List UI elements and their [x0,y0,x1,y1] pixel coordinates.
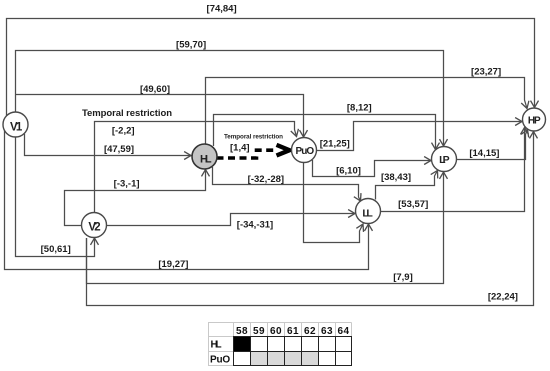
wire V2-HP [22,24] [87,132,534,306]
svg-text:62: 62 [304,326,316,337]
svg-text:63: 63 [321,326,333,337]
svg-text:[8,12]: [8,12] [347,102,372,113]
wire V2-PuO [-2,2] [95,122,297,214]
svg-text:61: 61 [287,326,299,337]
wire PuO-LL [304,163,364,243]
svg-text:[19,27]: [19,27] [158,259,188,270]
table header cells [209,323,352,366]
svg-text:[53,57]: [53,57] [398,199,428,210]
svg-text:64: 64 [338,326,350,337]
wire PuO-LP [6,10] [313,160,432,177]
svg-text:PuO: PuO [210,354,231,365]
svg-text:[-2,2]: [-2,2] [112,125,135,136]
svg-text:[47,59]: [47,59] [104,144,134,155]
svg-text:[49,60]: [49,60] [140,84,170,95]
svg-text:[-32,-28]: [-32,-28] [248,174,284,185]
data grid black [234,337,352,366]
svg-text:Temporal restriction: Temporal restriction [224,133,283,140]
svg-text:[14,15]: [14,15] [469,148,499,159]
svg-text:60: 60 [270,326,282,337]
svg-text:[22,24]: [22,24] [488,292,518,303]
node V1 [3,112,28,137]
svg-text:HL: HL [200,154,212,166]
svg-text:LP: LP [439,154,450,166]
wire V1-V2 [50,61] [16,130,95,257]
svg-text:59: 59 [253,326,265,337]
dashed temporal restriction arrow HL-PuO [1,4] [217,145,290,158]
svg-text:V2: V2 [88,222,100,234]
wire LP-HP [14,15] [457,130,528,160]
svg-text:HP: HP [528,116,541,127]
wire V1-PuO [49,60] [16,95,304,138]
wire V2-LP [7,9] [87,172,444,284]
wire HL-LL [-32,-28] [213,167,361,201]
svg-text:V1: V1 [10,122,23,134]
svg-text:[-3,-1]: [-3,-1] [114,178,140,189]
node HL [192,144,217,169]
svg-text:[1,4]: [1,4] [230,142,250,153]
svg-text:[-34,-31]: [-34,-31] [237,220,273,231]
HL black cell [234,337,251,352]
wire HL-HP [23,27] [206,78,528,145]
svg-text:Temporal restriction: Temporal restriction [82,108,172,119]
svg-text:[50,61]: [50,61] [41,244,71,255]
svg-text:[21,25]: [21,25] [320,138,350,149]
wire V1-LL [19,27] [5,128,369,270]
svg-text:[6,10]: [6,10] [336,166,361,177]
wire HL-LP [8,12] [214,115,436,150]
node V2 [82,213,107,238]
svg-text:HL: HL [211,340,223,351]
svg-text:[59,70]: [59,70] [176,39,206,50]
svg-text:[23,27]: [23,27] [471,67,501,78]
wire V1-LP [59,70] [16,51,444,147]
wire LL-LP [38,43] [376,171,438,200]
wire PuO-HP [21,25] [317,122,523,151]
svg-text:58: 58 [236,326,248,337]
svg-text:PuO: PuO [296,146,315,157]
wire LL-HP [53,57] [381,128,525,212]
wire V2-HL [-3,-1] [65,170,206,226]
node PuO [292,138,317,163]
svg-text:[7,9]: [7,9] [393,272,413,283]
node LP [432,147,457,172]
wire V1-HL [47,59] [25,134,192,156]
wire V2-LL [-34,-31] [107,214,356,226]
svg-text:[74,84]: [74,84] [207,3,237,14]
gantt table [209,323,352,366]
wire V1-HP [74,84] [7,19,535,121]
node LL [356,199,381,224]
svg-text:LL: LL [362,208,373,220]
svg-text:[38,43]: [38,43] [381,172,411,183]
PuO gray cells [251,352,319,366]
node HP [523,108,546,131]
